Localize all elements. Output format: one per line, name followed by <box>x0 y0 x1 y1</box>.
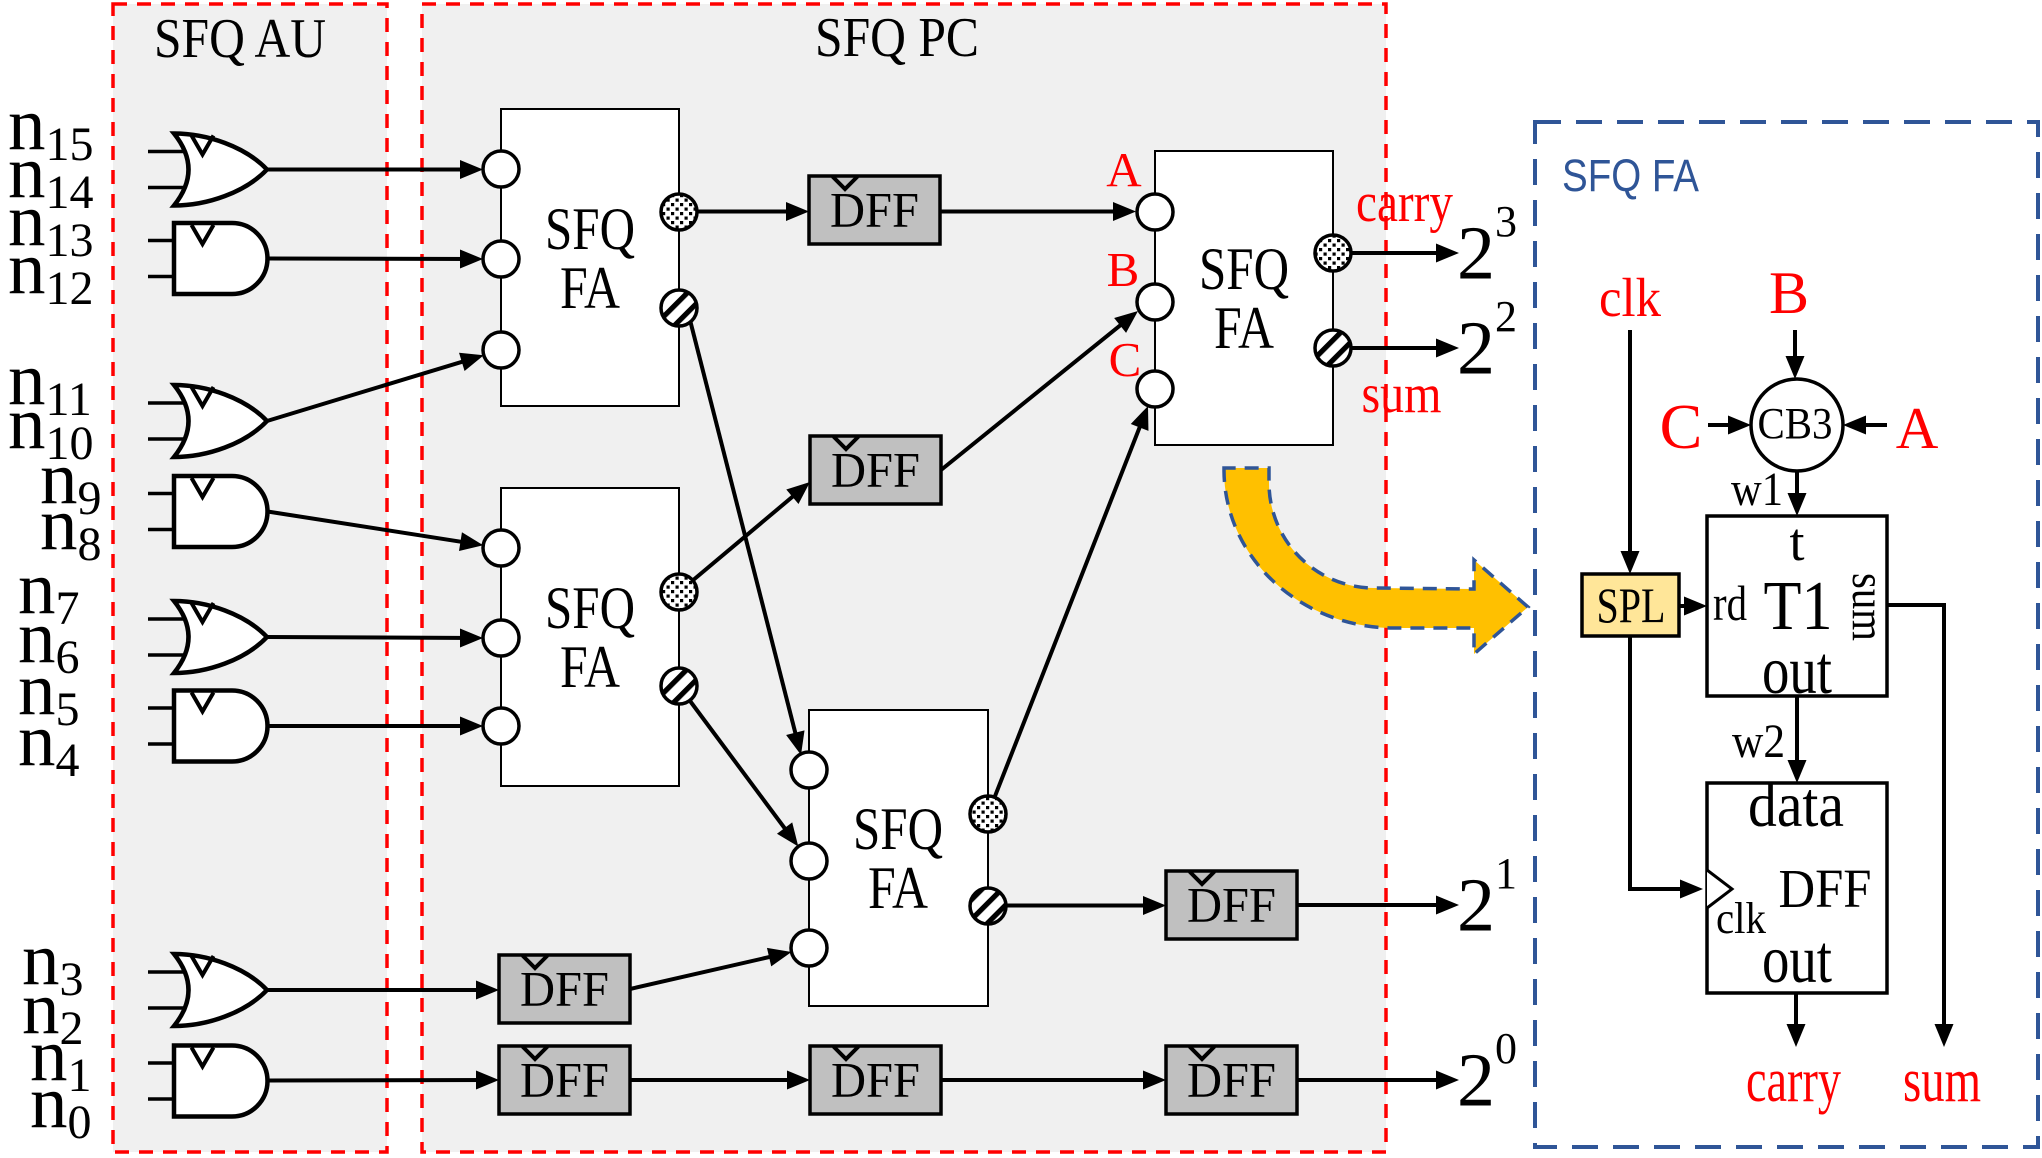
FA1 input port b <box>483 241 519 277</box>
FA4 input port C <box>1137 371 1173 407</box>
svg-text:data: data <box>1748 770 1844 840</box>
wire FA3 carry to FA4 input C <box>995 403 1157 798</box>
svg-text:SFQ PC: SFQ PC <box>815 7 979 69</box>
FA3 input port c <box>791 930 827 966</box>
wire SPL to DFF clk <box>1630 636 1703 899</box>
FA4 input port B <box>1137 284 1173 320</box>
wire XOR G3 to FA1 input c <box>267 346 487 421</box>
wire C to CB3 <box>1708 416 1751 435</box>
svg-text:SFQ: SFQ <box>545 575 635 641</box>
svg-text:SFQ FA: SFQ FA <box>1562 150 1699 201</box>
XOR gate G1 (n15,n14) <box>148 134 267 206</box>
wire FA2 carry to DFF2 <box>693 475 816 581</box>
svg-text:SFQ: SFQ <box>853 796 943 862</box>
FA3 input port a <box>791 752 827 788</box>
svg-text:DFF: DFF <box>520 1052 609 1108</box>
FA2 input port b <box>483 620 519 656</box>
wire FA3 sum to DFF7 <box>1006 896 1166 915</box>
svg-text:FA: FA <box>560 255 620 321</box>
yellow zoom arrow <box>1224 468 1528 654</box>
svg-text:A: A <box>1896 395 1939 461</box>
svg-text:clk: clk <box>1716 894 1766 943</box>
wire B to CB3 <box>1786 330 1805 379</box>
AND gate G8 (n1,n0) <box>148 1046 268 1117</box>
wire AND G4 to FA2 input a <box>268 512 485 555</box>
SFQ FA block FA2 <box>501 488 679 786</box>
FA4 carry output port <box>1315 235 1351 271</box>
svg-text:SFQ AU: SFQ AU <box>154 8 326 70</box>
wire FA4 carry to output 2^3 <box>1351 244 1459 263</box>
wire CB3 to T1 (net w1) <box>1788 471 1807 516</box>
AND gate G4 (n9,n8) <box>148 476 268 547</box>
wire DFF4 to DFF5 <box>630 1071 810 1090</box>
DFF5 (2^0 row, second) <box>810 1046 941 1114</box>
XOR gate G5 (n7,n6) <box>148 601 267 673</box>
wire FA1 sum to FA3 input a <box>690 320 810 757</box>
svg-text:C: C <box>1109 332 1142 387</box>
FA3 input port b <box>791 843 827 879</box>
wire DFF2 to FA4 input B <box>941 304 1144 470</box>
wire DFF6 to output 2^0 <box>1297 1071 1459 1090</box>
svg-text:DFF: DFF <box>831 1052 920 1108</box>
svg-text:21: 21 <box>1457 849 1517 948</box>
FA4 sum output port <box>1315 330 1351 366</box>
wire XOR G5 to FA2 input b <box>267 629 483 648</box>
DFF3 (XOR G7 to FA3 c) <box>499 955 630 1023</box>
svg-text:DFF: DFF <box>520 961 609 1017</box>
svg-text:CB3: CB3 <box>1758 399 1833 448</box>
DFF4 (AND G8 row, first) <box>499 1046 630 1114</box>
svg-text:SPL: SPL <box>1597 577 1666 633</box>
XOR gate G7 (n3,n2) <box>148 954 267 1026</box>
FA1 carry output port <box>661 194 697 230</box>
SFQ PC region box <box>422 4 1386 1152</box>
FA2 input port a <box>483 530 519 566</box>
SFQ FA block FA4 <box>1155 151 1333 445</box>
svg-text:22: 22 <box>1457 292 1517 391</box>
svg-text:B: B <box>1769 260 1809 326</box>
svg-text:B: B <box>1107 242 1140 297</box>
svg-text:FA: FA <box>868 855 928 921</box>
FA2 carry output port <box>661 574 697 610</box>
wire FA4 sum to output 2^2 <box>1351 339 1459 358</box>
svg-text:w1: w1 <box>1731 463 1783 516</box>
T-flip-flop T1 <box>1707 512 1894 708</box>
svg-text:rd: rd <box>1713 575 1747 631</box>
svg-text:FA: FA <box>560 634 620 700</box>
svg-text:out: out <box>1762 921 1832 997</box>
splitter SPL <box>1582 574 1679 636</box>
wire SPL to T1 rd <box>1679 597 1707 616</box>
svg-text:sum: sum <box>1903 1047 1981 1115</box>
svg-text:DFF: DFF <box>1187 1052 1276 1108</box>
SFQ FA block FA3 <box>809 710 988 1006</box>
svg-text:C: C <box>1660 391 1703 462</box>
wire FA2 sum to FA3 input b <box>690 701 806 853</box>
wire DFF3 to FA3 input c <box>630 943 794 989</box>
svg-text:DFF: DFF <box>1779 858 1872 919</box>
svg-text:23: 23 <box>1457 197 1517 296</box>
SFQ FA detail box (blue dashed) <box>1535 122 2038 1147</box>
wire DFF7 to output 2^1 <box>1297 896 1459 915</box>
wire AND G8 to DFF4 <box>268 1071 500 1090</box>
wire FA1 carry to DFF1 <box>697 202 809 221</box>
wire XOR G7 to DFF3 <box>267 981 499 1000</box>
DFF6 (2^0 row, third) <box>1166 1046 1297 1114</box>
FA2 sum output port <box>661 668 697 704</box>
DFF7 (FA3 sum to 2^1) <box>1166 871 1297 939</box>
AND gate G6 (n5,n4) <box>148 691 268 762</box>
wire DFF5 to DFF6 <box>941 1071 1166 1090</box>
svg-text:A: A <box>1106 142 1142 197</box>
wire clk to SPL <box>1621 330 1640 574</box>
XOR gate G3 (n11,n10) <box>148 385 267 457</box>
svg-text:DFF: DFF <box>831 442 920 498</box>
wire T1 sum to sum output <box>1887 605 1954 1047</box>
svg-text:DFF: DFF <box>830 182 919 238</box>
svg-text:sum: sum <box>1842 573 1894 641</box>
svg-text:DFF: DFF <box>1187 877 1276 933</box>
FA1 sum output port <box>661 290 697 326</box>
FA1 input port c <box>483 332 519 368</box>
svg-text:clk: clk <box>1599 267 1661 328</box>
wire DFF out to carry <box>1787 993 1806 1047</box>
svg-text:w2: w2 <box>1732 715 1785 768</box>
svg-text:FA: FA <box>1214 295 1274 361</box>
SFQ FA block FA1 <box>501 109 679 406</box>
svg-text:carry: carry <box>1356 172 1453 234</box>
FA3 carry output port <box>970 796 1006 832</box>
wire A to CB3 <box>1843 416 1887 435</box>
svg-text:SFQ: SFQ <box>545 196 635 262</box>
AND gate G2 (n13,n12) <box>148 223 267 294</box>
FA4 input port A <box>1137 194 1173 230</box>
SFQ AU region box <box>113 4 387 1152</box>
svg-text:sum: sum <box>1362 363 1442 424</box>
svg-text:20: 20 <box>1457 1024 1517 1123</box>
svg-text:carry: carry <box>1746 1047 1841 1115</box>
svg-text:SFQ: SFQ <box>1199 236 1289 302</box>
flip-flop DFF (detail) <box>1707 770 1887 997</box>
FA3 sum output port <box>970 888 1006 924</box>
svg-text:t: t <box>1789 512 1804 572</box>
DFF2 (FA2 carry to FA4 B) <box>810 436 941 504</box>
DFF1 (FA1 carry to FA4 A) <box>809 176 940 244</box>
FA1 input port a <box>483 151 519 187</box>
wire T1 to DFF (net w2) <box>1788 696 1807 783</box>
wire AND G6 to FA2 input c <box>268 717 484 736</box>
FA2 input port c <box>483 708 519 744</box>
wire XOR G1 to FA1 input a <box>267 160 483 179</box>
merger CB3 <box>1751 379 1843 471</box>
wire DFF1 to FA4 input A <box>940 202 1136 221</box>
wire AND G2 to FA1 input b <box>268 250 484 269</box>
